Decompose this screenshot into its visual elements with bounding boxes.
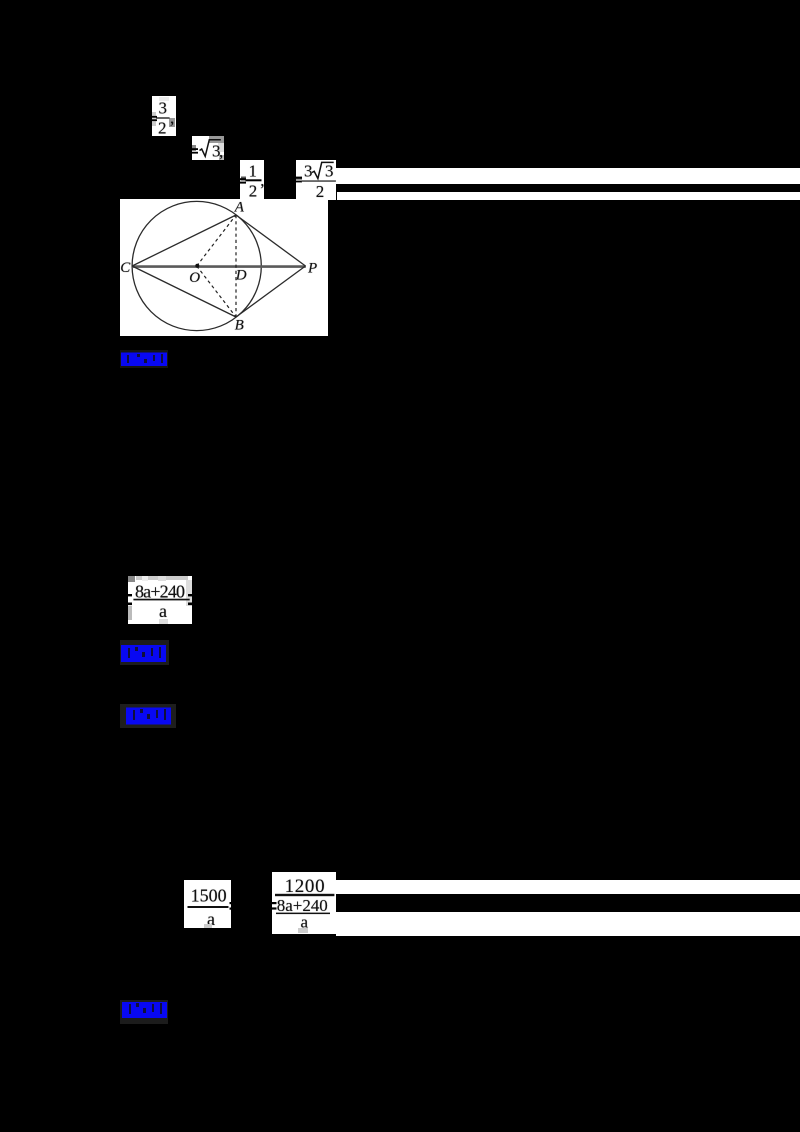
wire CP (secant through center) xyxy=(132,265,306,268)
blue label 2 xyxy=(120,640,169,665)
blue label 4 xyxy=(120,1000,168,1024)
white strip right of F4 (line background 1) xyxy=(336,168,800,184)
svg-text:D: D xyxy=(235,267,247,283)
svg-text:,: , xyxy=(219,142,223,161)
center dot O xyxy=(195,264,199,268)
formula box F5: = (8a+240)/a , xyxy=(128,576,192,624)
formula box F4: = 3*sqrt(3)/2 xyxy=(296,160,336,200)
formula box F6: 1500/a = xyxy=(184,880,231,928)
svg-text:A: A xyxy=(234,200,245,216)
white strip right of F7 (line background 3) xyxy=(336,880,800,894)
wire CB xyxy=(132,266,236,317)
formula box F7: = 1200/((8a+240)/a) xyxy=(272,872,336,934)
svg-text:O: O xyxy=(189,270,200,286)
svg-text:3: 3 xyxy=(325,161,334,180)
white strip right of F7 (line background 4) xyxy=(336,912,800,936)
radical xyxy=(312,162,334,178)
white strip right of F4 (line background 2) xyxy=(337,192,800,200)
svg-text:2: 2 xyxy=(249,182,257,201)
svg-text:3: 3 xyxy=(304,161,313,180)
circle (center O) xyxy=(132,201,261,330)
svg-text:1500: 1500 xyxy=(191,886,227,906)
blue label 1 xyxy=(120,350,168,368)
svg-text:3: 3 xyxy=(159,99,168,118)
formula box F1: = 3/2 , xyxy=(152,96,176,136)
svg-text:,: , xyxy=(260,171,264,190)
dashed radius OB xyxy=(197,266,236,317)
svg-text:2: 2 xyxy=(158,119,167,138)
formula box F2: = sqrt(3) , xyxy=(192,136,224,160)
wire CA xyxy=(132,215,236,266)
formula box F3: = 1/2 , xyxy=(240,160,264,200)
geometry figure box xyxy=(120,199,328,336)
svg-text:a: a xyxy=(159,601,167,621)
radical xyxy=(200,140,221,157)
blue label 3 xyxy=(120,704,176,728)
svg-text:,: , xyxy=(170,109,174,128)
dashed radius OA xyxy=(197,215,236,266)
svg-text:8a+240: 8a+240 xyxy=(135,581,185,601)
wire AP (tangent) xyxy=(236,215,306,266)
svg-text:B: B xyxy=(235,317,244,333)
svg-text:C: C xyxy=(120,260,131,276)
svg-text:P: P xyxy=(307,260,317,276)
wire BP (tangent) xyxy=(236,266,306,317)
dashed chord AB xyxy=(235,215,237,317)
svg-text:1: 1 xyxy=(249,162,258,181)
